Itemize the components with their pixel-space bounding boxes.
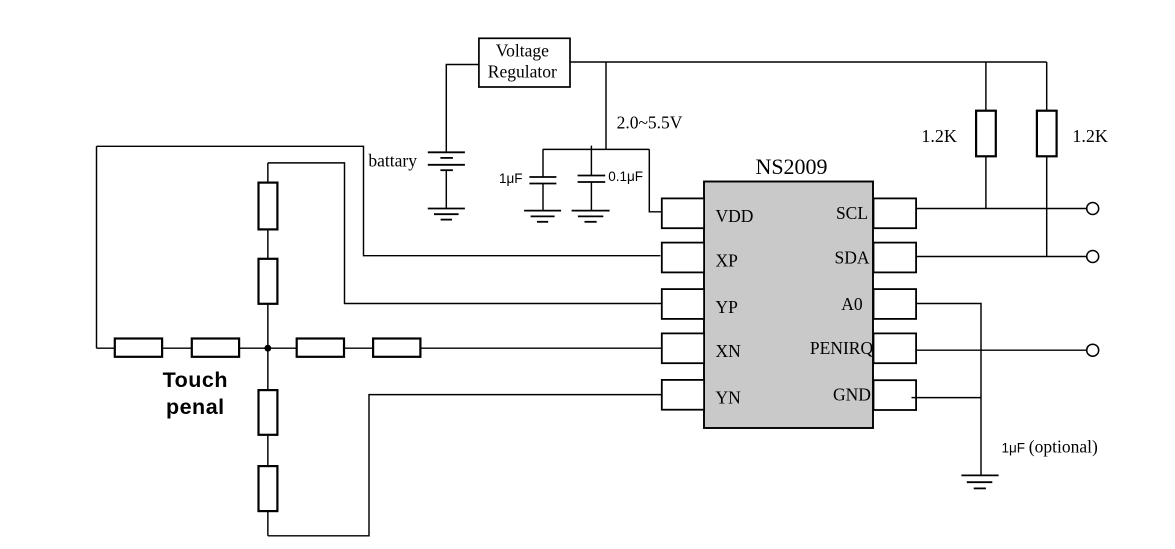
- svg-text:Voltage: Voltage: [496, 41, 549, 61]
- svg-text:1.2K: 1.2K: [921, 126, 957, 146]
- svg-text:Touch: Touch: [163, 368, 228, 392]
- svg-text:NS2009: NS2009: [755, 154, 827, 179]
- svg-text:A0: A0: [841, 294, 863, 314]
- svg-text:penal: penal: [166, 395, 225, 419]
- svg-text:1.2K: 1.2K: [1072, 126, 1108, 146]
- svg-text:SDA: SDA: [834, 247, 869, 267]
- svg-text:YN: YN: [716, 388, 742, 408]
- svg-text:battary: battary: [368, 151, 417, 171]
- svg-text:2.0~5.5V: 2.0~5.5V: [617, 113, 683, 133]
- svg-text:XN: XN: [716, 341, 742, 361]
- svg-text:0.1μF: 0.1μF: [608, 169, 643, 184]
- svg-text:GND: GND: [833, 385, 871, 405]
- svg-text:SCL: SCL: [836, 203, 868, 223]
- svg-text:XP: XP: [716, 250, 739, 270]
- svg-text:Regulator: Regulator: [488, 62, 557, 82]
- svg-text:VDD: VDD: [716, 206, 754, 226]
- svg-text:1μF: 1μF: [499, 171, 523, 186]
- svg-text:PENIRQ: PENIRQ: [810, 338, 874, 358]
- svg-text:YP: YP: [716, 297, 739, 317]
